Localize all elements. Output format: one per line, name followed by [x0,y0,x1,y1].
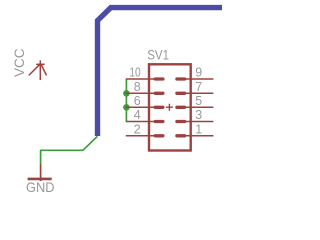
svg-text:GND: GND [26,180,55,195]
pin 2 [126,122,163,136]
pin 4 [126,108,163,122]
svg-text:7: 7 [195,80,202,94]
pin 8 [126,80,163,94]
svg-text:SV1: SV1 [147,48,169,64]
junction dot pin 8 [123,90,130,97]
pin 9 [177,66,214,80]
connector SV1 [126,48,214,151]
svg-text:VCC: VCC [11,49,27,78]
svg-text:2: 2 [134,122,141,136]
svg-text:9: 9 [195,66,202,80]
connector body outline [149,64,191,150]
svg-text:6: 6 [134,94,141,108]
pin 6 [126,94,163,108]
bus B$1 [98,8,223,136]
svg-text:4: 4 [134,108,141,122]
pin 1 [177,122,214,136]
pin 5 [177,94,214,108]
pin 3 [177,108,214,122]
pin 10 [126,66,163,80]
GND supply symbol [28,164,52,181]
svg-text:1: 1 [195,122,202,136]
wire connector column (pins 10-8-6-4) [125,79,127,122]
svg-text:5: 5 [195,94,202,108]
svg-text:8: 8 [134,80,141,94]
origin cross [166,104,173,111]
pin 7 [177,80,214,94]
VCC supply symbol P+1 [29,60,47,80]
wire GND net (from GND symbol to bus entry) [41,136,98,164]
svg-text:10: 10 [129,66,140,80]
junction dot pin 6 [123,104,130,111]
svg-text:3: 3 [195,108,202,122]
